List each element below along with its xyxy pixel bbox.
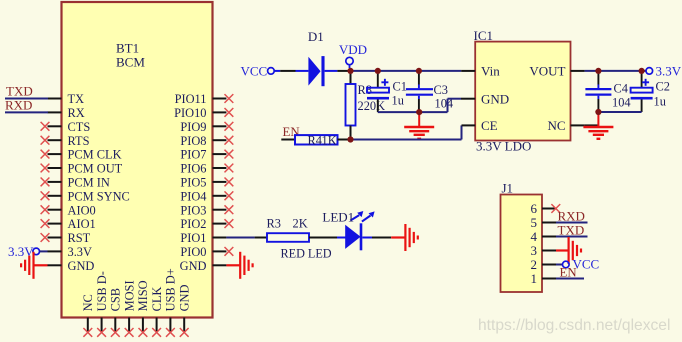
node EN junction <box>347 136 353 142</box>
svg-text:RST: RST <box>68 231 91 245</box>
svg-text:R4: R4 <box>308 133 322 147</box>
power port VDD <box>339 42 367 68</box>
svg-text:PCM OUT: PCM OUT <box>68 162 123 176</box>
IC1 pin Vin <box>461 64 500 79</box>
svg-text:MISO: MISO <box>136 280 150 311</box>
capacitor C2 <box>631 71 653 112</box>
wire TXD to TX <box>5 98 48 100</box>
svg-text:VOUT: VOUT <box>529 64 565 79</box>
svg-text:3.3V: 3.3V <box>656 64 682 79</box>
no-connect X on J1 pin 6 <box>551 204 560 213</box>
wire LED1 to ground <box>362 237 405 239</box>
svg-text:CTS: CTS <box>68 120 91 134</box>
svg-text:https://blog.csdn.net/qlexcel: https://blog.csdn.net/qlexcel <box>478 317 670 334</box>
svg-text:AIO1: AIO1 <box>68 217 96 231</box>
BT1 left pin AIO1 <box>41 217 96 231</box>
net label RXD <box>5 98 32 113</box>
svg-text:USB D+: USB D+ <box>164 268 178 311</box>
J1 pin 5 <box>531 215 557 230</box>
value 1u <box>392 94 404 108</box>
node C4 top junction <box>595 68 601 74</box>
BT1 right pin PIO6 <box>180 162 233 176</box>
BT1 bottom pin CSB <box>109 288 123 337</box>
designator J1 <box>502 181 514 196</box>
svg-text:C1: C1 <box>393 80 407 94</box>
svg-text:GND: GND <box>481 91 509 106</box>
BT1 right pin PIO5 <box>180 176 233 190</box>
watermark <box>478 317 670 334</box>
IC BT1 body <box>62 2 213 318</box>
svg-text:CSB: CSB <box>109 288 123 311</box>
label D1 <box>308 29 324 44</box>
J1 pin 1 <box>531 271 557 286</box>
svg-text:PIO3: PIO3 <box>180 203 206 217</box>
earth ground right <box>583 112 613 139</box>
svg-text:1u: 1u <box>392 94 404 108</box>
svg-text:PIO0: PIO0 <box>180 245 206 259</box>
node right rail junction <box>595 109 601 115</box>
wire R3 to LED1 <box>309 237 346 239</box>
wire C4/C2 bottom rail <box>598 111 641 113</box>
BT1 left pin RX <box>48 106 85 120</box>
svg-text:CE: CE <box>481 118 498 133</box>
svg-text:Vin: Vin <box>481 64 500 79</box>
svg-text:104: 104 <box>612 96 631 110</box>
IC1 pin VOUT <box>529 64 584 79</box>
power port VCC <box>241 64 281 79</box>
BT1 left pin CTS <box>41 120 91 134</box>
BT1 left pin PCM CLK <box>41 148 122 162</box>
resistor R8 <box>346 71 356 140</box>
svg-text:TXD: TXD <box>558 223 585 238</box>
svg-text:BT1: BT1 <box>116 41 139 56</box>
svg-text:USB D-: USB D- <box>95 271 109 311</box>
svg-text:6: 6 <box>531 201 538 216</box>
BT1 left pin AIO0 <box>41 203 96 217</box>
svg-text:PIO10: PIO10 <box>174 106 206 120</box>
svg-text:GND: GND <box>180 259 207 273</box>
node C1 top junction <box>375 68 381 74</box>
power ground at BT1 GND right <box>226 252 252 279</box>
svg-text:IC1: IC1 <box>474 28 494 43</box>
designator BT1 <box>116 41 139 56</box>
net label EN at J1 <box>560 266 577 280</box>
BT1 right pin PIO9 <box>180 120 233 134</box>
svg-text:RXD: RXD <box>558 209 585 224</box>
svg-text:PIO1: PIO1 <box>180 231 206 245</box>
svg-text:PCM SYNC: PCM SYNC <box>68 189 130 203</box>
label R8 <box>358 83 372 97</box>
svg-text:PIO2: PIO2 <box>180 217 206 231</box>
BT1 right pin PIO1 <box>180 231 226 245</box>
BT1 right pin GND <box>180 259 227 273</box>
J1 pin 3 <box>531 243 557 258</box>
BT1 left pin RST <box>41 231 91 245</box>
svg-text:TX: TX <box>68 92 85 106</box>
svg-text:1: 1 <box>531 271 538 286</box>
svg-text:C3: C3 <box>434 83 448 97</box>
label LED1 <box>322 210 354 225</box>
svg-text:C2: C2 <box>656 80 670 94</box>
BT1 bottom pin USB D+ <box>164 268 178 337</box>
svg-text:BCM: BCM <box>116 55 145 70</box>
BT1 right pin PIO4 <box>180 189 233 203</box>
svg-text:220K: 220K <box>358 99 386 113</box>
svg-text:RX: RX <box>68 106 85 120</box>
node VDD junction <box>347 68 353 74</box>
svg-text:C4: C4 <box>614 82 628 96</box>
wire VOUT rail <box>585 70 646 72</box>
net label TXD <box>6 84 33 99</box>
power ground at BT1 GND left <box>21 252 47 279</box>
label R4 <box>308 133 322 147</box>
BT1 bottom pin NC <box>81 294 95 337</box>
svg-text:PIO7: PIO7 <box>180 148 206 162</box>
wire TXD at J1 <box>556 236 588 238</box>
svg-text:PIO6: PIO6 <box>180 162 206 176</box>
svg-text:CLK: CLK <box>150 287 164 312</box>
power port VCC at J1 <box>556 257 599 272</box>
BT1 left pin 3.3V <box>48 245 92 259</box>
svg-text:1K: 1K <box>322 133 337 147</box>
wire VDD rail to Vin <box>351 70 462 72</box>
svg-text:5: 5 <box>531 215 538 230</box>
diode D1 <box>308 56 323 86</box>
IC1 pin GND <box>461 91 509 106</box>
svg-text:GND: GND <box>178 285 192 312</box>
BT1 left pin RTS <box>41 134 90 148</box>
net label RXD at J1 <box>558 209 585 224</box>
svg-text:R8: R8 <box>358 83 372 97</box>
svg-text:NC: NC <box>81 294 95 311</box>
svg-text:3: 3 <box>531 243 538 258</box>
value RED LED <box>281 247 332 261</box>
node C3 top junction <box>416 68 422 74</box>
IC IC1 body <box>475 42 570 141</box>
svg-text:PIO9: PIO9 <box>180 120 206 134</box>
BT1 right pin PIO8 <box>180 134 233 148</box>
power ground after LED1 <box>405 224 417 251</box>
node C2 top junction <box>639 68 645 74</box>
svg-text:EN: EN <box>560 266 577 280</box>
value 104 of C3 <box>435 97 454 111</box>
svg-text:RED LED: RED LED <box>281 247 332 261</box>
svg-text:2K: 2K <box>293 217 308 231</box>
BT1 right pin PIO3 <box>180 203 233 217</box>
power ground at J1 pin 3 <box>556 237 581 264</box>
BT1 left pin PCM OUT <box>41 162 123 176</box>
earth ground middle <box>404 112 434 139</box>
BT1 bottom pin MISO <box>136 280 150 336</box>
value 1K <box>322 133 337 147</box>
value BCM <box>116 55 145 70</box>
svg-text:J1: J1 <box>502 181 514 196</box>
wire EN stub <box>281 139 295 141</box>
BT1 left pin GND <box>48 259 95 273</box>
label C2 <box>656 80 670 94</box>
BT1 bottom pin USB D- <box>95 271 109 337</box>
wire VCC to D1 <box>280 70 308 72</box>
svg-text:4: 4 <box>531 229 538 244</box>
svg-text:D1: D1 <box>308 29 324 44</box>
svg-text:AIO0: AIO0 <box>68 203 96 217</box>
svg-text:NC: NC <box>547 118 565 133</box>
BT1 bottom pin GND <box>178 285 192 337</box>
wire EN at J1 <box>556 278 584 280</box>
svg-text:TXD: TXD <box>6 84 33 99</box>
designator IC1 <box>474 28 494 43</box>
svg-text:1u: 1u <box>654 95 666 109</box>
svg-text:RTS: RTS <box>68 134 90 148</box>
svg-text:PCM CLK: PCM CLK <box>68 148 122 162</box>
IC1 pin NC <box>547 118 584 133</box>
label C1 <box>393 80 407 94</box>
net label TXD at J1 <box>558 223 585 238</box>
capacitor C3 <box>406 71 433 112</box>
wire R4 to R8 bottom <box>338 139 349 141</box>
value 3.3V LDO <box>476 139 531 154</box>
wire RXD to RX <box>5 111 48 113</box>
resistor R3 <box>267 233 309 242</box>
svg-text:LED1: LED1 <box>322 210 354 225</box>
LED LED1 <box>345 211 374 250</box>
BT1 right pin PIO0 <box>180 245 233 259</box>
svg-text:PCM IN: PCM IN <box>68 176 110 190</box>
label C3 <box>434 83 448 97</box>
svg-text:PIO8: PIO8 <box>180 134 206 148</box>
BT1 right pin PIO10 <box>174 106 233 120</box>
capacitor C4 <box>585 71 611 112</box>
svg-text:VCC: VCC <box>241 64 268 79</box>
net label EN <box>283 125 300 139</box>
power port 3.3V right <box>646 64 682 79</box>
J1 pin 2 <box>531 257 557 272</box>
J1 pin 4 <box>531 229 557 244</box>
resistor R4 <box>295 135 338 144</box>
BT1 left pin PCM IN <box>41 176 110 190</box>
svg-text:PIO11: PIO11 <box>175 92 207 106</box>
BT1 bottom pin MOSI <box>122 280 136 336</box>
BT1 right pin PIO7 <box>180 148 233 162</box>
svg-text:3.3V LDO: 3.3V LDO <box>476 139 531 154</box>
svg-text:EN: EN <box>283 125 300 139</box>
svg-text:VDD: VDD <box>339 42 367 57</box>
svg-text:R3: R3 <box>267 217 281 231</box>
wire RXD at J1 <box>556 222 588 224</box>
connector J1 body <box>501 195 543 293</box>
value 220K <box>358 99 386 113</box>
svg-text:GND: GND <box>68 259 95 273</box>
svg-text:PIO5: PIO5 <box>180 176 206 190</box>
BT1 right pin PIO2 <box>180 217 233 231</box>
svg-text:RXD: RXD <box>5 98 32 113</box>
label R3 <box>267 217 281 231</box>
wire EN to CE <box>351 125 462 139</box>
value 2K <box>293 217 308 231</box>
svg-text:3.3V: 3.3V <box>68 245 92 259</box>
IC1 pin CE <box>462 118 498 133</box>
value 104 of C4 <box>612 96 631 110</box>
BT1 right pin PIO11 <box>175 92 234 106</box>
value 1u of C2 <box>654 95 666 109</box>
node bottom rail junction <box>416 109 422 115</box>
label C4 <box>614 82 628 96</box>
BT1 left pin TX <box>48 92 85 106</box>
wire C1/C3 bottom rail <box>378 99 461 112</box>
capacitor C1 <box>367 71 389 112</box>
wire PIO1 to R3 <box>226 237 267 239</box>
BT1 left pin PCM SYNC <box>41 189 130 203</box>
svg-text:2: 2 <box>531 257 538 272</box>
wire D1 to VDD node <box>325 70 348 72</box>
svg-text:MOSI: MOSI <box>122 280 136 311</box>
svg-text:PIO4: PIO4 <box>180 189 206 203</box>
wire NC to ground <box>585 124 598 126</box>
power port 3.3V left <box>8 244 48 259</box>
J1 pin 6 <box>531 201 557 216</box>
BT1 bottom pin CLK <box>150 287 164 337</box>
